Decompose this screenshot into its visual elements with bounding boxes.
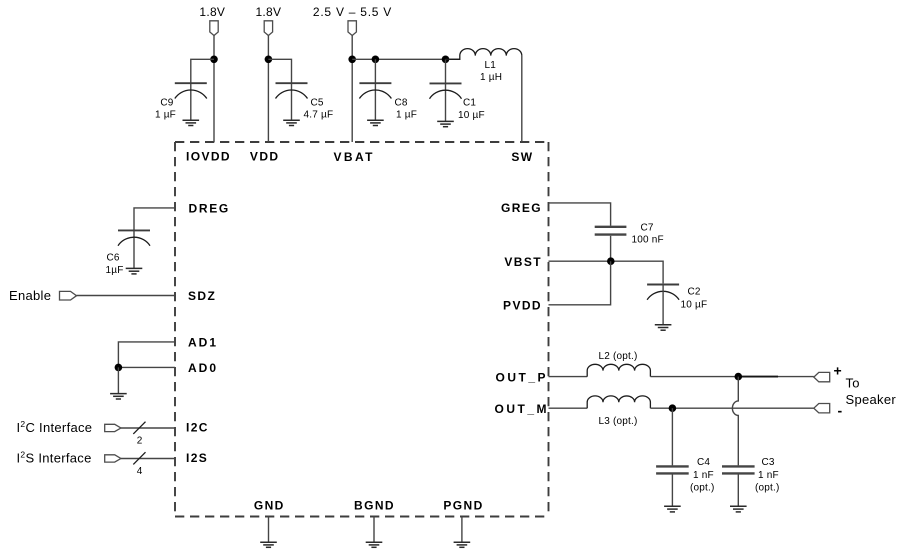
wire GND pin to ground <box>268 517 270 543</box>
wire L1 to SW pin <box>521 56 523 142</box>
capacitor C4 <box>656 466 689 473</box>
ground (C5) <box>283 120 300 125</box>
capacitor C9 <box>175 83 207 98</box>
capacitor C8 <box>359 83 391 98</box>
ground (BGND) <box>366 542 383 547</box>
wire PVDD to VBST node <box>549 261 611 305</box>
node OUT_M / C4 junction <box>669 404 677 412</box>
wire L2 to speaker + <box>650 376 813 378</box>
svg-text:PGND: PGND <box>443 499 483 513</box>
svg-text:10 µF: 10 µF <box>681 300 708 311</box>
svg-text:I2C Interface: I2C Interface <box>17 419 93 435</box>
svg-text:L2 (opt.): L2 (opt.) <box>599 351 638 362</box>
capacitor C3 <box>722 466 755 473</box>
svg-text:-: - <box>838 403 843 419</box>
wire C4 to ground <box>671 475 673 507</box>
node VDD / C5 junction <box>265 56 273 64</box>
svg-text:BGND: BGND <box>354 499 395 513</box>
svg-text:1 nF: 1 nF <box>693 470 714 481</box>
capacitor C2 <box>647 285 679 300</box>
node VBST junction <box>607 257 615 265</box>
inductor L1 <box>446 49 522 60</box>
svg-text:C7: C7 <box>641 222 654 233</box>
svg-text:I2S Interface: I2S Interface <box>17 450 92 466</box>
node C8 junction <box>372 56 380 64</box>
svg-text:VBAT: VBAT <box>334 150 375 164</box>
IC U1 dashed outline <box>175 142 549 517</box>
svg-text:OUT_P: OUT_P <box>496 370 549 384</box>
svg-text:I2S: I2S <box>186 451 208 465</box>
svg-text:1 nF: 1 nF <box>758 470 779 481</box>
svg-text:IOVDD: IOVDD <box>186 149 231 163</box>
inductor L2 <box>587 364 650 376</box>
wire branch to C5 <box>268 59 291 120</box>
svg-text:2: 2 <box>137 435 143 446</box>
power connector 1.8V (IOVDD) <box>210 21 218 36</box>
connector I2S <box>105 455 121 462</box>
wire 1.8V supply to IOVDD pin <box>213 36 215 143</box>
svg-text:1 µF: 1 µF <box>396 110 417 121</box>
svg-text:GND: GND <box>254 499 285 513</box>
svg-text:1.8V: 1.8V <box>199 5 225 19</box>
wire VBAT rail to C8, C1, L1 <box>352 58 460 60</box>
svg-text:I2C: I2C <box>186 421 209 435</box>
wire AD0 <box>118 366 175 368</box>
svg-text:1 µH: 1 µH <box>480 72 502 83</box>
svg-text:SW: SW <box>511 150 533 164</box>
wire C3 branch hopping over OUT_M <box>732 377 738 466</box>
ground (AD0) <box>110 394 127 399</box>
svg-text:VDD: VDD <box>250 149 280 163</box>
wire C3 to ground <box>737 475 739 507</box>
svg-text:4.7 µF: 4.7 µF <box>304 110 334 121</box>
wire VBST to C2 branch <box>549 261 664 283</box>
svg-text:SDZ: SDZ <box>188 289 216 303</box>
wire 2.5-5.5V supply to VBAT pin <box>351 36 353 143</box>
svg-text:100 nF: 100 nF <box>632 235 664 246</box>
svg-text:Enable: Enable <box>9 288 51 303</box>
svg-text:C4: C4 <box>697 457 710 468</box>
svg-text:AD0: AD0 <box>188 361 218 375</box>
wire OUT_P to L2 <box>549 376 588 378</box>
node C1 junction <box>442 56 450 64</box>
svg-text:VBST: VBST <box>504 255 542 269</box>
svg-text:1µF: 1µF <box>106 265 124 276</box>
node IOVDD / C9 junction <box>210 56 218 64</box>
wire 1.8V supply to VDD pin <box>267 36 269 143</box>
svg-text:PVDD: PVDD <box>503 299 542 313</box>
wire branch to C9 <box>191 59 214 120</box>
wire AD1 to AD0 node <box>118 342 175 368</box>
power connector 1.8V (VDD) <box>264 21 272 36</box>
capacitor C5 <box>276 83 308 98</box>
svg-text:4: 4 <box>137 466 143 477</box>
ground (C1) <box>437 121 454 126</box>
ground (C9) <box>183 120 200 125</box>
inductor L3 <box>587 396 650 408</box>
ground (GND) <box>260 542 277 547</box>
node OUT_P / C3 junction <box>735 373 743 381</box>
svg-text:OUT_M: OUT_M <box>495 402 550 416</box>
wire OUT_M to L3 <box>549 407 588 409</box>
svg-text:(opt.): (opt.) <box>755 482 780 493</box>
svg-text:To: To <box>846 376 860 391</box>
svg-text:L1: L1 <box>485 60 497 71</box>
svg-text:1 µF: 1 µF <box>155 110 176 121</box>
wire AD0 node to ground <box>117 367 119 393</box>
ground (C4) <box>664 506 681 512</box>
power connector 2.5-5.5V (VBAT) <box>348 21 356 36</box>
wire Enable to SDZ pin <box>77 295 176 297</box>
wire C2 to ground <box>662 285 664 325</box>
capacitor C6 <box>118 230 150 245</box>
svg-text:(opt.): (opt.) <box>690 482 715 493</box>
capacitor C1 <box>430 83 462 98</box>
wire BGND pin to ground <box>373 517 375 543</box>
svg-text:Speaker: Speaker <box>846 392 897 407</box>
svg-text:10 µF: 10 µF <box>458 110 485 121</box>
bus slash I2C <box>133 422 145 434</box>
svg-text:L3 (opt.): L3 (opt.) <box>599 416 638 427</box>
svg-text:C1: C1 <box>463 97 476 108</box>
node AD1/AD0 junction <box>115 364 123 372</box>
svg-text:C9: C9 <box>160 98 173 109</box>
svg-text:DREG: DREG <box>189 202 230 216</box>
wire I2C bus to pin <box>121 427 175 429</box>
svg-text:+: + <box>834 363 842 379</box>
ground (C3) <box>730 506 747 512</box>
wire C4 branch <box>671 408 673 465</box>
wire L3 to speaker - <box>650 407 813 409</box>
connector I2C <box>105 424 121 431</box>
svg-text:2.5 V – 5.5 V: 2.5 V – 5.5 V <box>313 5 392 19</box>
bus slash I2S <box>133 452 145 464</box>
wire PGND pin to ground <box>461 517 463 543</box>
connector speaker - <box>814 404 830 413</box>
connector Enable <box>60 291 77 300</box>
wire branch to C1 <box>445 59 447 121</box>
wire GREG to C7 <box>549 203 611 226</box>
node VBAT junction <box>348 56 356 64</box>
svg-text:C2: C2 <box>688 287 701 298</box>
svg-text:AD1: AD1 <box>188 336 218 350</box>
ground (PGND) <box>454 542 471 547</box>
ground (C8) <box>367 120 384 125</box>
wire C7 to VBST node <box>610 236 612 261</box>
svg-text:C3: C3 <box>762 457 775 468</box>
svg-text:C5: C5 <box>311 98 324 109</box>
svg-text:C6: C6 <box>107 252 120 263</box>
wire DREG to C6 <box>134 208 175 269</box>
ground (C6) <box>126 268 143 274</box>
ground (C2) <box>655 325 672 331</box>
connector speaker + <box>814 372 830 381</box>
svg-text:C8: C8 <box>395 98 408 109</box>
wire I2S bus to pin <box>121 458 175 460</box>
svg-text:1.8V: 1.8V <box>255 5 281 19</box>
wire branch to C8 <box>374 59 376 120</box>
svg-text:GREG: GREG <box>501 201 542 215</box>
capacitor C7 <box>595 227 627 235</box>
